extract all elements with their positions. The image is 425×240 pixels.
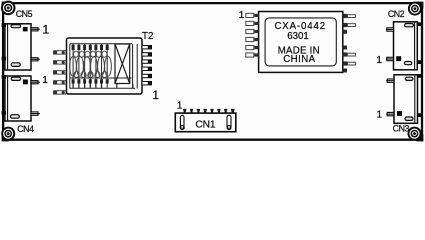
CN4 pin1 marker (23, 80, 28, 85)
T2 right pin 9 (142, 67, 152, 70)
hybrid IC U1 body (259, 12, 343, 73)
U1 right stub 10 (343, 46, 347, 50)
CN2 top slot (405, 24, 414, 27)
CN1 pin 1 (183, 109, 186, 114)
CN5 pin 1 (31, 28, 40, 31)
svg-text:CN4: CN4 (17, 124, 34, 134)
svg-text:1: 1 (152, 88, 159, 102)
svg-text:CN2: CN2 (388, 9, 405, 19)
U1 left pin 5 (246, 46, 259, 50)
CN5 pin 2 (31, 58, 40, 61)
T2 right pin 8 (142, 60, 152, 63)
CN4 pin 2 (31, 112, 40, 115)
connector CN5 body (5, 24, 31, 70)
connector CN4 body (5, 76, 31, 121)
CN1 pin 5 (210, 109, 213, 114)
CN3 pin 1 (386, 112, 394, 115)
CN5 edge tab bottom (2, 57, 7, 61)
CN2 top pin (386, 28, 394, 31)
svg-text:1: 1 (177, 101, 183, 112)
U1 right stub 9 (343, 30, 347, 34)
mounting hole BL (1, 127, 15, 142)
U1 right stub 13 (343, 69, 347, 73)
svg-text:6301: 6301 (287, 31, 309, 42)
CN1 pin 8 (231, 109, 235, 114)
T2 winding window left edge (69, 44, 71, 88)
connector CN2 body (394, 22, 418, 70)
T2 winding bottom rail (70, 77, 132, 79)
mounting hole TR (408, 2, 424, 16)
transformer T2 body (67, 38, 143, 94)
CN3 edge tab top (417, 74, 422, 78)
CN4 edge tab top (2, 75, 7, 79)
CN2 pin 1 (386, 57, 394, 60)
CN4 edge tab bottom (2, 111, 7, 115)
T2 left pin 1 (54, 51, 67, 54)
T2 core box with X (115, 44, 130, 84)
CN3 pin1 marker (397, 111, 402, 116)
CN3 top slot (405, 77, 413, 80)
svg-text:1: 1 (376, 54, 382, 66)
T2 winding terminal squares bottom (72, 79, 109, 83)
T2 winding wires (73, 44, 107, 88)
connector CN1 body (175, 113, 236, 132)
T2 winding terminal squares top (72, 45, 109, 50)
T2 left pin 2 (54, 61, 67, 64)
CN2 edge tab bottom (417, 60, 422, 64)
U1 right pin 7 (343, 14, 356, 18)
CN4 bottom slot (11, 115, 20, 119)
U1 right pin 11 (343, 52, 356, 56)
U1 left pin 6 (246, 53, 259, 57)
CN1 left post (180, 115, 184, 129)
U1 left pin 4 (246, 37, 259, 41)
T2 right pin 11 (142, 82, 152, 85)
CN1 pin 6 (217, 109, 220, 114)
svg-text:CN5: CN5 (16, 9, 33, 19)
T2 right pin 7 (142, 53, 152, 56)
svg-text:CHINA: CHINA (283, 54, 315, 65)
CN5 edge tab top (2, 23, 7, 27)
svg-text:1: 1 (377, 110, 383, 121)
CN4 pin 1 (31, 81, 40, 84)
T2 right pin 6 (142, 46, 152, 49)
T2 coil turns (70, 57, 112, 77)
CN5 bottom slot (11, 63, 20, 67)
connector CN3 body (394, 75, 418, 124)
CN2 pin1 marker (396, 56, 401, 61)
CN3 bottom slot (405, 117, 413, 120)
T2 left pin 3 (54, 71, 67, 74)
mounting hole TL (1, 1, 16, 16)
U1 left pin 1 (246, 13, 259, 17)
CN1 pin 4 (204, 109, 207, 114)
svg-text:CN1: CN1 (195, 119, 215, 130)
T2 divider line (132, 44, 134, 88)
svg-text:CN3: CN3 (393, 124, 410, 134)
CN1 pin 7 (224, 109, 227, 114)
CN1 pin 3 (197, 109, 200, 114)
T2 inner wall right (136, 44, 138, 89)
CN1 pin 2 (190, 109, 193, 114)
T2 winding top rail (70, 43, 132, 45)
CN2 bottom slot (404, 62, 411, 65)
U1 right pin 8 (343, 23, 356, 27)
T2 right pin 10 (142, 74, 152, 77)
T2 coil loops top (74, 51, 107, 57)
U1 left pin 2 (246, 21, 259, 25)
mounting hole BR (408, 127, 424, 142)
board outline (3, 3, 422, 140)
CN3 edge tab bottom (417, 113, 422, 117)
U1 right pin 12 (343, 61, 356, 65)
CN4 top slot (11, 77, 20, 80)
CN5 pin1 marker (23, 27, 28, 32)
T2 left pin 4 (54, 81, 67, 84)
CN3 top pin (386, 79, 394, 82)
U1 left pin 3 (246, 29, 259, 33)
T2 coil loops bottom (74, 72, 107, 78)
T2 winding bottom ticks (73, 84, 133, 88)
svg-text:1: 1 (239, 10, 245, 21)
CN1 right post (227, 115, 231, 129)
T2 left pin 5 (54, 91, 67, 94)
svg-text:1: 1 (42, 22, 49, 36)
U1 inner frame (265, 18, 336, 66)
T2 winding base rail (70, 87, 136, 89)
svg-text:1: 1 (42, 75, 48, 86)
svg-text:T2: T2 (142, 31, 153, 42)
CN5 top slot (11, 25, 21, 28)
CN2 edge tab top (417, 22, 422, 26)
